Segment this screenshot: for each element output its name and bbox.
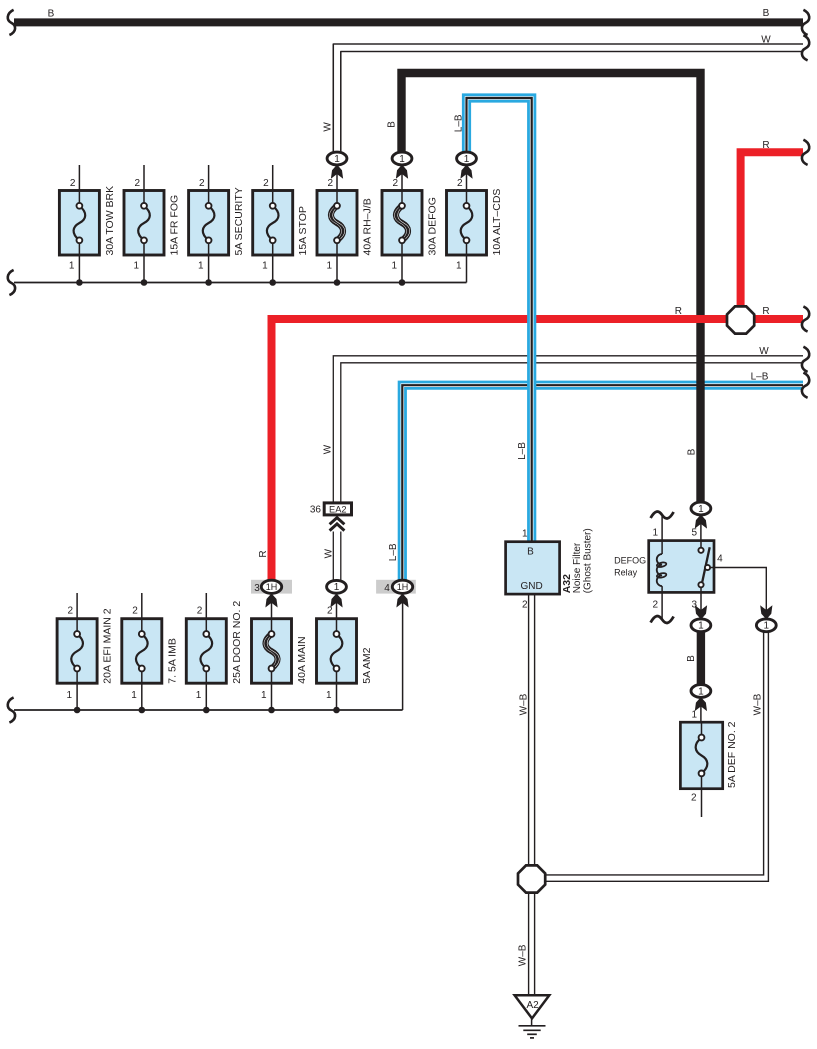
svg-text:W–B: W–B	[753, 693, 764, 715]
svg-text:2: 2	[691, 793, 697, 804]
svg-text:1: 1	[691, 710, 697, 721]
svg-text:4: 4	[717, 554, 723, 565]
svg-text:R: R	[762, 140, 769, 151]
svg-text:EA2: EA2	[329, 504, 347, 514]
svg-text:1: 1	[456, 261, 462, 272]
svg-text:B: B	[387, 121, 398, 128]
svg-text:W: W	[323, 548, 334, 558]
svg-text:1: 1	[652, 528, 658, 539]
svg-text:2: 2	[652, 600, 658, 611]
svg-text:2: 2	[457, 178, 463, 189]
svg-text:W: W	[761, 34, 771, 45]
svg-text:2: 2	[134, 178, 140, 189]
svg-text:R: R	[762, 306, 769, 317]
svg-text:5: 5	[691, 528, 697, 539]
svg-text:GND: GND	[520, 581, 542, 592]
svg-text:W: W	[759, 346, 769, 357]
svg-text:1: 1	[326, 261, 332, 272]
svg-text:2: 2	[70, 178, 76, 189]
svg-text:25A DOOR NO. 2: 25A DOOR NO. 2	[231, 601, 243, 684]
svg-text:1: 1	[698, 686, 704, 697]
svg-text:2: 2	[132, 606, 138, 617]
svg-text:30A TOW BRK: 30A TOW BRK	[104, 186, 116, 256]
svg-text:15A STOP: 15A STOP	[297, 206, 309, 255]
svg-text:1: 1	[262, 261, 268, 272]
svg-text:36: 36	[310, 505, 322, 516]
svg-text:2: 2	[199, 178, 205, 189]
svg-text:2: 2	[263, 178, 269, 189]
svg-text:L–B: L–B	[751, 372, 769, 383]
svg-text:L–B: L–B	[453, 114, 464, 132]
svg-text:1: 1	[198, 261, 204, 272]
svg-text:W–B: W–B	[518, 944, 529, 966]
svg-text:7. 5A IMB: 7. 5A IMB	[166, 638, 178, 684]
svg-text:W: W	[322, 122, 333, 132]
svg-text:1: 1	[399, 154, 405, 165]
svg-text:1: 1	[131, 690, 137, 701]
svg-text:1: 1	[698, 504, 704, 515]
svg-text:1: 1	[764, 621, 770, 632]
svg-text:W: W	[323, 444, 334, 454]
svg-text:1: 1	[334, 154, 340, 165]
svg-text:(Ghost Buster): (Ghost Buster)	[583, 528, 594, 593]
svg-text:15A FR FOG: 15A FR FOG	[169, 195, 181, 256]
svg-text:5A DEF NO. 2: 5A DEF NO. 2	[726, 721, 738, 788]
svg-text:1: 1	[67, 690, 73, 701]
svg-text:1: 1	[133, 261, 139, 272]
svg-text:3: 3	[254, 583, 260, 594]
svg-text:1: 1	[698, 621, 704, 632]
svg-text:B: B	[686, 655, 697, 662]
svg-text:10A ALT–CDS: 10A ALT–CDS	[491, 189, 503, 256]
svg-text:40A MAIN: 40A MAIN	[296, 636, 308, 683]
svg-text:1: 1	[464, 154, 470, 165]
svg-text:1: 1	[326, 690, 332, 701]
svg-text:1: 1	[261, 690, 267, 701]
svg-text:A2: A2	[526, 1000, 539, 1011]
svg-text:DEFOG: DEFOG	[614, 556, 646, 566]
svg-text:2: 2	[522, 600, 528, 611]
svg-text:1H: 1H	[397, 582, 409, 592]
svg-text:B: B	[527, 547, 534, 558]
svg-text:R: R	[258, 550, 269, 557]
svg-text:2: 2	[327, 606, 333, 617]
svg-text:R: R	[675, 306, 682, 317]
svg-text:W–B: W–B	[519, 693, 530, 715]
svg-text:1: 1	[196, 690, 202, 701]
svg-text:4: 4	[384, 583, 390, 594]
svg-text:Relay: Relay	[614, 568, 638, 578]
svg-text:1: 1	[391, 261, 397, 272]
svg-text:L–B: L–B	[517, 442, 528, 460]
svg-text:Noise Filter: Noise Filter	[572, 542, 583, 593]
svg-text:2: 2	[68, 606, 74, 617]
svg-text:5A SECURITY: 5A SECURITY	[233, 187, 245, 255]
svg-text:20A EFI MAIN 2: 20A EFI MAIN 2	[102, 608, 114, 683]
svg-text:1: 1	[69, 261, 75, 272]
svg-text:1: 1	[522, 529, 528, 540]
svg-text:1: 1	[334, 582, 340, 593]
svg-text:2: 2	[392, 178, 398, 189]
svg-text:40A RH–J/B: 40A RH–J/B	[362, 198, 374, 255]
svg-text:1H: 1H	[266, 582, 278, 592]
svg-text:30A DEFOG: 30A DEFOG	[427, 197, 439, 255]
svg-text:2: 2	[197, 606, 203, 617]
svg-text:B: B	[763, 8, 770, 19]
svg-text:5A AM2: 5A AM2	[361, 647, 373, 683]
svg-text:B: B	[687, 448, 698, 455]
svg-text:B: B	[48, 9, 55, 20]
svg-text:2: 2	[327, 178, 333, 189]
svg-text:L–B: L–B	[388, 543, 399, 561]
